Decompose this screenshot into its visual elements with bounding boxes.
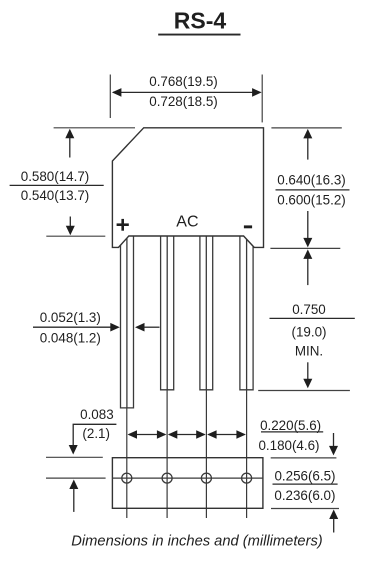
bottom view bottom edge extension line (right) xyxy=(271,508,339,510)
hole centerline xyxy=(112,477,263,479)
top width dim right arrowhead xyxy=(252,88,262,97)
lead 4 xyxy=(240,234,253,390)
fraction bar xyxy=(273,483,338,485)
svg-text:0.640(16.3): 0.640(16.3) xyxy=(277,172,346,187)
right height dim up arrow xyxy=(307,133,309,160)
svg-text:MIN.: MIN. xyxy=(295,344,323,359)
svg-text:0.256(6.5): 0.256(6.5) xyxy=(274,469,335,484)
0.083 leader underline + drop xyxy=(73,424,116,446)
lead tip extension line (right) xyxy=(258,390,350,392)
hole 4 xyxy=(242,473,252,483)
fraction bar xyxy=(261,431,323,433)
svg-text:AC: AC xyxy=(176,214,198,231)
svg-text:0.220(5.6): 0.220(5.6) xyxy=(260,418,321,433)
fraction bar xyxy=(270,317,355,319)
lead 1 centerline xyxy=(126,409,128,519)
minus terminal mark xyxy=(244,225,252,228)
rect height dim down arrow xyxy=(333,433,335,447)
bottom view rectangle xyxy=(112,458,263,509)
lead 3 xyxy=(200,234,213,390)
lead 1 (long +) xyxy=(121,234,134,408)
lead 2 centerline xyxy=(166,390,168,518)
svg-text:0.048(1.2): 0.048(1.2) xyxy=(40,330,101,345)
hole centerline extension line (left) xyxy=(46,477,106,479)
lead 4 centerline xyxy=(246,390,248,518)
body top edge extension line (left) xyxy=(54,127,135,129)
lead width dim left arrow xyxy=(33,326,112,328)
lead width dim right arrow xyxy=(135,323,145,332)
fraction bar xyxy=(10,184,104,186)
bottom view top edge extension line (left) xyxy=(46,456,103,458)
svg-text:Dimensions in inches and (mill: Dimensions in inches and (millimeters) xyxy=(71,533,323,549)
svg-text:0.728(18.5): 0.728(18.5) xyxy=(149,94,218,109)
svg-text:0.580(14.7): 0.580(14.7) xyxy=(21,169,90,184)
hole 2 xyxy=(162,473,172,483)
lead length dim up arrow xyxy=(307,253,309,285)
fraction bar xyxy=(276,189,350,191)
svg-text:0.750: 0.750 xyxy=(292,302,326,317)
pitch dim span 3 arrows xyxy=(207,430,246,439)
lead 3 centerline xyxy=(205,390,207,518)
svg-text:RS-4: RS-4 xyxy=(174,8,227,34)
body outline (front view, chamfered corner) xyxy=(112,128,263,248)
pitch dim span 2 arrows xyxy=(168,430,206,439)
hole 3 xyxy=(201,473,211,483)
body ledge extension line (right) xyxy=(270,247,340,249)
rect height dim up arrow xyxy=(329,510,338,520)
right height dim down arrow xyxy=(307,211,309,244)
plus terminal mark xyxy=(117,219,129,231)
left height dim up arrow xyxy=(69,133,71,158)
bottom view top edge extension line (right) xyxy=(271,457,337,459)
svg-text:(19.0): (19.0) xyxy=(292,324,327,339)
0.083 down arrowhead xyxy=(69,445,78,455)
top width dim left arrowhead xyxy=(112,88,122,97)
left height dim down arrow xyxy=(69,217,71,232)
svg-text:(2.1): (2.1) xyxy=(82,426,110,441)
top width dim line xyxy=(113,91,261,93)
top width dim right extension line xyxy=(261,75,263,123)
svg-text:0.768(19.5): 0.768(19.5) xyxy=(149,74,218,89)
lead 2 xyxy=(161,234,174,390)
svg-text:0.540(13.7): 0.540(13.7) xyxy=(21,188,90,203)
lead length dim down arrow xyxy=(307,362,309,384)
body top edge extension line (right) xyxy=(271,127,341,129)
svg-text:0.052(1.3): 0.052(1.3) xyxy=(40,310,101,325)
0.083 up arrow xyxy=(69,480,78,490)
svg-text:0.083: 0.083 xyxy=(80,407,114,422)
title underline xyxy=(158,34,240,36)
top width dim left extension line xyxy=(109,75,111,119)
svg-text:0.236(6.0): 0.236(6.0) xyxy=(274,488,335,503)
body bottom edge extension line (left) xyxy=(46,235,105,237)
hole 1 xyxy=(122,473,132,483)
svg-text:0.180(4.6): 0.180(4.6) xyxy=(258,438,319,453)
svg-text:0.600(15.2): 0.600(15.2) xyxy=(277,192,346,207)
pitch dim span 1 arrows xyxy=(128,430,167,439)
